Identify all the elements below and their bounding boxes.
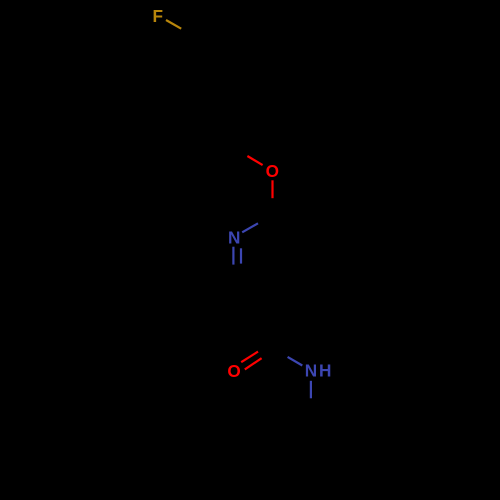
svg-text:O: O — [266, 161, 279, 181]
svg-text:H: H — [319, 361, 331, 381]
double bond C7=O lower line (red half) — [245, 358, 262, 369]
bond N-C2 (blue half, up-right) — [242, 223, 258, 232]
double bond N=C6 main line (blue half, down) — [232, 247, 234, 265]
bond O-C2 pyridine (red half, down) — [271, 180, 273, 198]
double bond C7=O upper line (red half) — [241, 352, 258, 363]
bond N-C8 (blue half, down) — [310, 381, 312, 399]
bond O-CH2 (red half, up-left) — [247, 156, 262, 165]
double bond N=C6 inner line (blue half, down) — [240, 248, 242, 263]
svg-text:N: N — [228, 227, 240, 247]
bond F-C3' (gold half) — [166, 20, 181, 29]
bond N-C7 (blue half, up-left) — [288, 357, 303, 366]
svg-text:F: F — [153, 6, 164, 26]
svg-text:N: N — [305, 361, 317, 381]
svg-text:O: O — [227, 361, 240, 381]
